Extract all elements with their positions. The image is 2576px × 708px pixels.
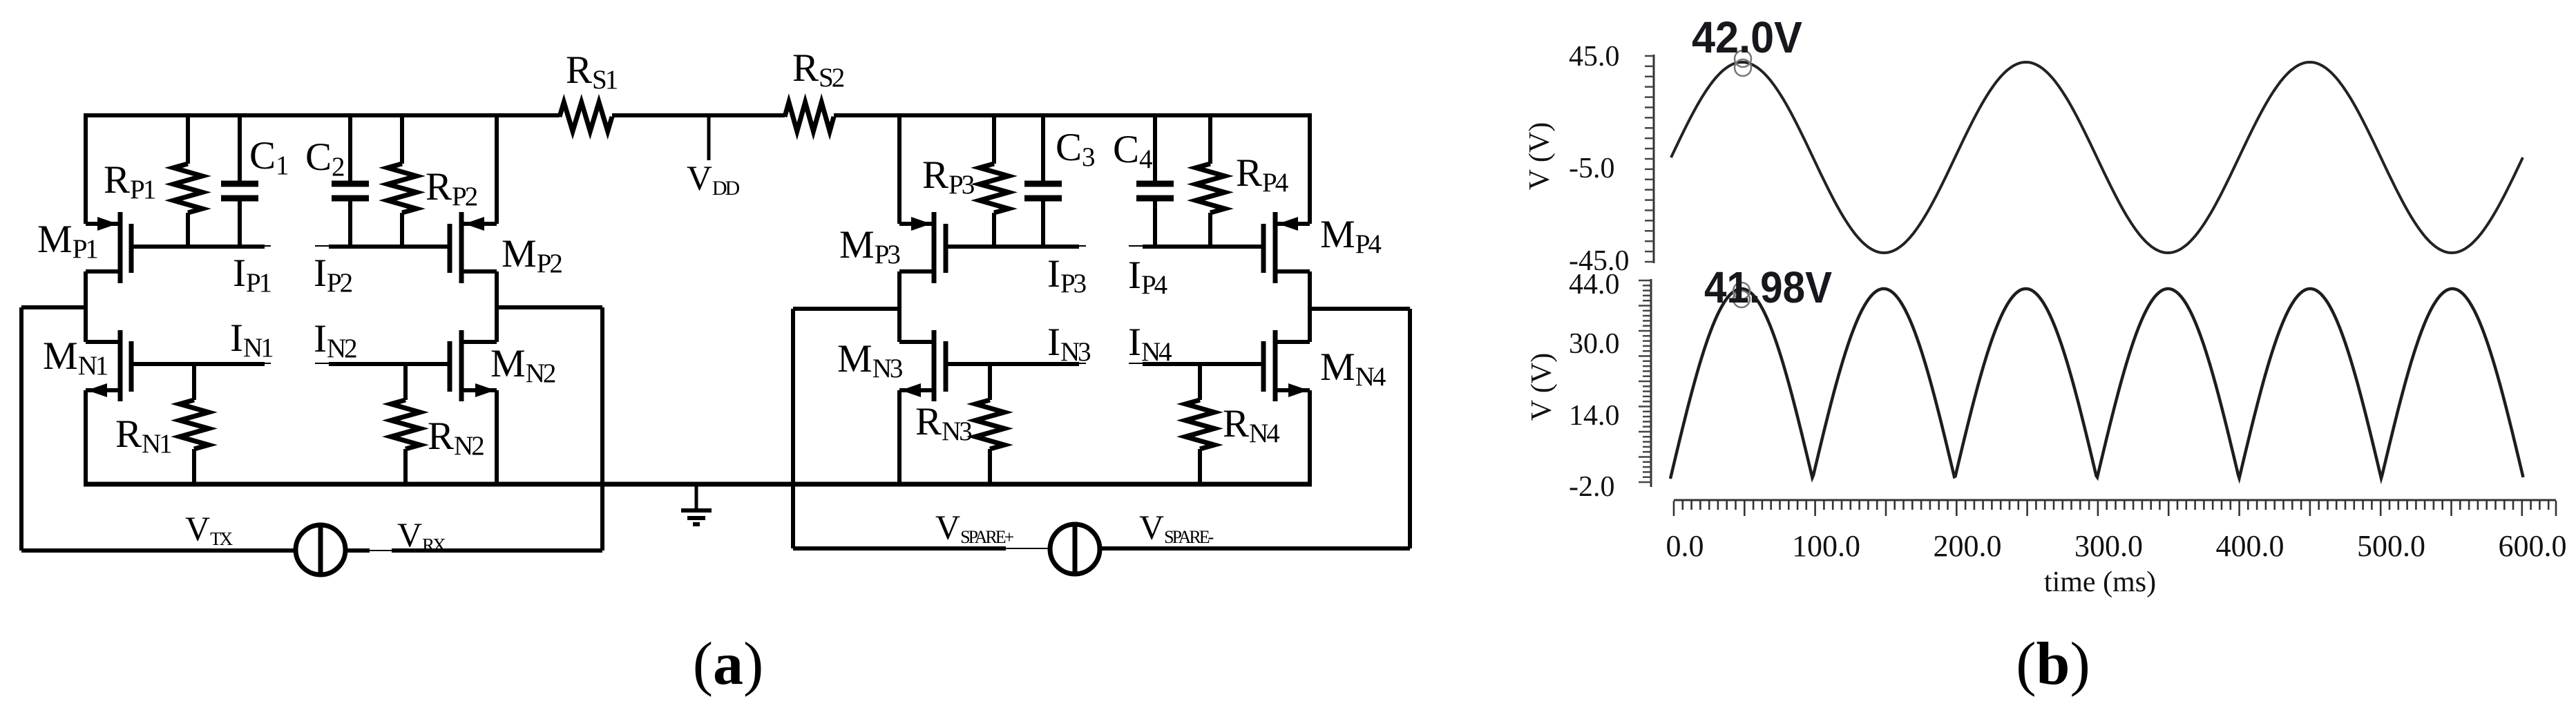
wire VRX	[345, 548, 602, 553]
wire	[1308, 390, 1312, 484]
wire	[84, 115, 88, 224]
transistor MN1	[86, 330, 271, 401]
resistor RP4	[1196, 115, 1225, 247]
wire VSPARE-	[1100, 546, 1410, 551]
svg-text:45.0: 45.0	[1569, 41, 1620, 73]
node VDD	[707, 115, 711, 160]
svg-text:300.0: 300.0	[2074, 529, 2143, 563]
resistor RP2	[388, 115, 417, 247]
capacitor C4	[1136, 115, 1174, 247]
wire	[84, 271, 88, 342]
wire	[897, 271, 901, 342]
svg-text:(a): (a)	[693, 631, 764, 698]
svg-text:0.0: 0.0	[1666, 529, 1704, 563]
resistor RN3	[975, 364, 1004, 484]
transistor MP3	[899, 212, 1086, 283]
capacitor C3	[1024, 115, 1062, 247]
wire	[793, 309, 899, 548]
transistor MP2	[315, 212, 497, 283]
wire	[84, 482, 1312, 487]
svg-text:200.0: 200.0	[1934, 529, 2002, 563]
wire	[1308, 271, 1312, 342]
wire	[1308, 115, 1312, 224]
resistor RN2	[391, 364, 420, 484]
marker top peak cursor	[1735, 50, 1751, 76]
curve bottom rectified sine	[1670, 289, 2523, 479]
svg-text:30.0: 30.0	[1569, 328, 1620, 360]
wire	[612, 113, 785, 117]
wire	[897, 390, 901, 484]
transistor MP1	[86, 212, 271, 283]
svg-text:400.0: 400.0	[2216, 529, 2284, 563]
axis time ruler	[1674, 500, 2556, 516]
wire	[495, 115, 499, 224]
transistor MP4	[1129, 212, 1310, 283]
resistor RN1	[180, 364, 209, 484]
transistor MN2	[315, 330, 497, 401]
marker bottom peak cursor	[1733, 283, 1750, 307]
svg-text:44.0: 44.0	[1569, 269, 1620, 300]
transistor MN3	[899, 330, 1086, 401]
svg-text:600.0: 600.0	[2499, 529, 2567, 563]
svg-text:V (V): V (V)	[1526, 353, 1558, 421]
wire VTX	[21, 548, 296, 553]
ground	[681, 484, 712, 524]
wire	[21, 307, 86, 551]
current source VTX/VRX	[296, 524, 345, 575]
resistor RS1	[560, 102, 612, 131]
wire	[495, 271, 499, 342]
svg-text:-2.0: -2.0	[1569, 471, 1615, 503]
wire	[84, 390, 88, 484]
resistor RN4	[1185, 364, 1214, 484]
wire	[834, 113, 1312, 117]
wire	[1310, 309, 1410, 548]
svg-text:-5.0: -5.0	[1569, 153, 1615, 184]
svg-text:V (V): V (V)	[1524, 122, 1556, 190]
transistor MN4	[1129, 330, 1310, 401]
svg-text:100.0: 100.0	[1792, 529, 1860, 563]
wire	[497, 307, 602, 551]
wire	[495, 390, 499, 484]
wire	[897, 115, 901, 224]
axis top voltage ruler	[1645, 55, 1654, 263]
resistor RP1	[173, 115, 202, 247]
wire	[84, 113, 560, 117]
resistor RS2	[785, 102, 834, 131]
wire VSPARE+	[793, 546, 1048, 551]
curve top sine V sine wave	[1671, 62, 2523, 253]
svg-text:time (ms): time (ms)	[2044, 566, 2156, 598]
resistor RP3	[980, 115, 1009, 247]
capacitor C1	[221, 115, 258, 247]
svg-text:500.0: 500.0	[2357, 529, 2425, 563]
axis bottom voltage ruler	[1639, 279, 1651, 487]
svg-text:14.0: 14.0	[1569, 400, 1620, 432]
capacitor C2	[332, 115, 369, 247]
svg-text:41.98V: 41.98V	[1704, 262, 1832, 312]
svg-text:(b): (b)	[2016, 631, 2090, 698]
current source VSPARE	[1050, 524, 1100, 575]
svg-text:42.0V: 42.0V	[1692, 12, 1802, 62]
